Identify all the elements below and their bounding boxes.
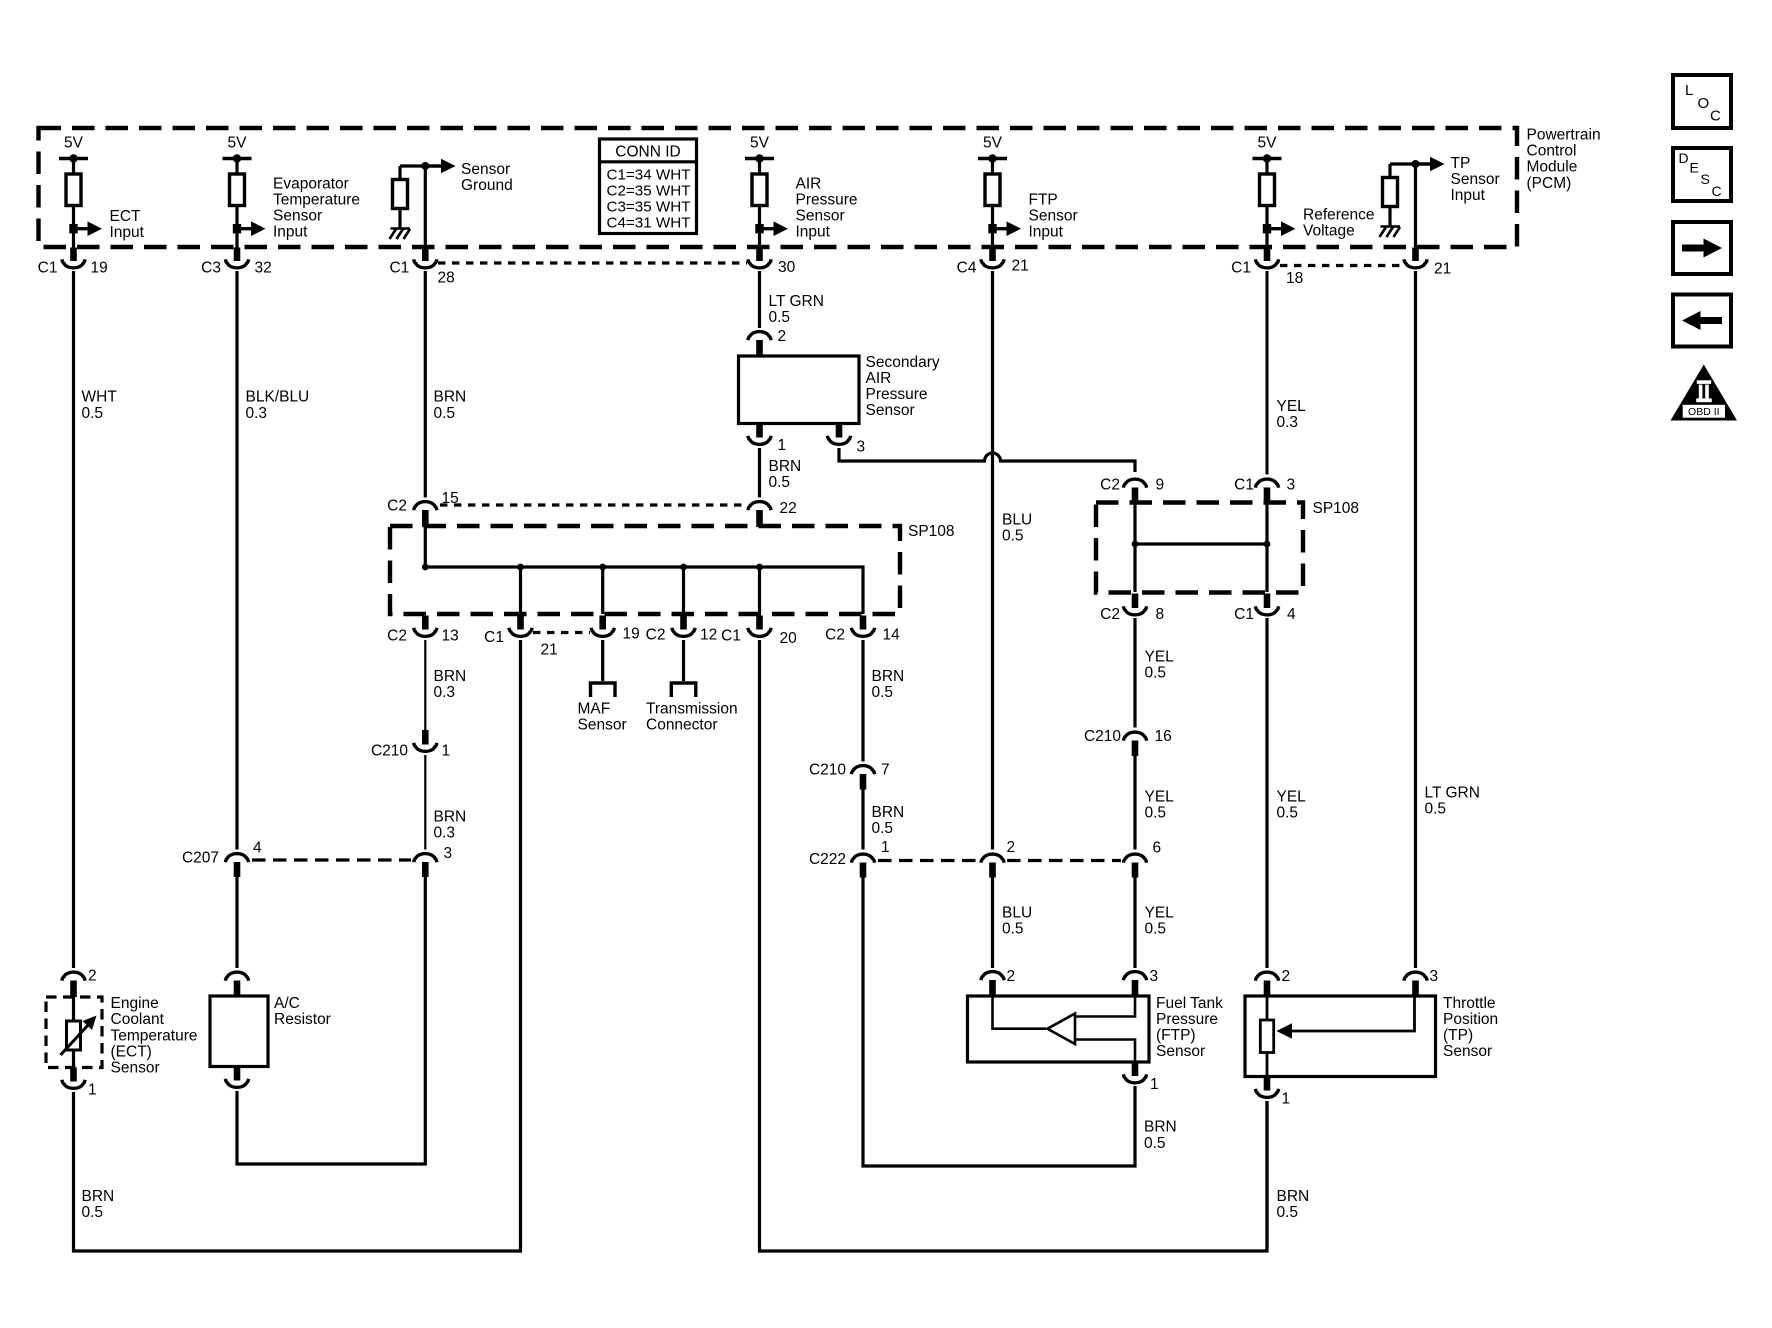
svg-text:0.3: 0.3: [434, 684, 456, 701]
FTP pin1 cup: [1123, 1074, 1146, 1083]
svg-text:ECT: ECT: [110, 208, 142, 225]
wire LT GRN top: [758, 271, 761, 328]
svg-text:0.5: 0.5: [82, 405, 104, 422]
svg-text:C1: C1: [389, 260, 409, 277]
dotted link C1-28 to 30: [438, 261, 747, 264]
wire YEL 0.3 C1-18 down: [1266, 271, 1269, 475]
svg-text:(ECT): (ECT): [111, 1043, 152, 1060]
PCM connector cup pin 18: [1255, 259, 1278, 268]
svg-text:0.5: 0.5: [872, 684, 894, 701]
label BLK/BLU 0.3: [246, 389, 310, 422]
svg-text:19: 19: [91, 260, 108, 277]
svg-text:Reference: Reference: [1303, 206, 1375, 223]
C222-6 stub: [1132, 863, 1139, 878]
CONN ID table box: [600, 139, 697, 234]
ECT pin2 cap: [62, 972, 85, 981]
input label AIR: [796, 175, 858, 240]
TP input wire inside PCM: [1414, 164, 1417, 248]
wire YEL below C222-6: [1133, 878, 1136, 969]
wire LT GRN right: [1414, 271, 1417, 968]
PCM connector cup pin 32: [225, 259, 248, 268]
C207 pin4 cap: [225, 854, 248, 863]
label BRN 0.5 below AIR pin1: [769, 458, 802, 491]
svg-text:Sensor: Sensor: [578, 717, 627, 734]
svg-text:13: 13: [442, 628, 459, 645]
svg-text:0.5: 0.5: [1145, 804, 1167, 821]
svg-text:3: 3: [1430, 968, 1439, 985]
svg-text:0.5: 0.5: [1002, 920, 1024, 937]
dashed link C222 2-6: [1007, 859, 1121, 862]
C210-16 stub: [1132, 741, 1139, 757]
svg-text:YEL: YEL: [1145, 788, 1175, 805]
svg-text:YEL: YEL: [1277, 398, 1307, 415]
C222-1 stub: [860, 863, 867, 878]
svg-text:3: 3: [857, 439, 866, 456]
label BLU 0.5 upper: [1002, 511, 1032, 544]
SP108 row cup x=863.0: [851, 628, 874, 637]
label YEL 0.5 b: [1145, 788, 1175, 821]
svg-text:Throttle: Throttle: [1443, 995, 1496, 1012]
SP108 row cup x=520.5: [509, 628, 532, 637]
svg-text:Pressure: Pressure: [1156, 1011, 1218, 1028]
SP108 left bus wire: [425, 527, 863, 614]
AIR pin2 cap: [748, 332, 771, 341]
PCM connector cup pin 28: [414, 259, 437, 268]
svg-text:BLK/BLU: BLK/BLU: [246, 389, 310, 406]
svg-text:3: 3: [1150, 968, 1159, 985]
TP input junction dot: [1412, 160, 1420, 168]
Secondary AIR sensor box: [739, 356, 860, 424]
wire C1-20 long down: [760, 640, 1268, 1251]
ECT label: [111, 995, 198, 1076]
svg-text:C207: C207: [182, 850, 219, 867]
svg-text:YEL: YEL: [1145, 904, 1175, 921]
C2-15 stub: [422, 510, 429, 527]
SP108 row cup x=602.7: [591, 628, 614, 637]
sensor ground resistor to chassis: [398, 208, 401, 228]
label BRN 0.5 x14 b: [872, 804, 905, 837]
svg-text:C2: C2: [1100, 477, 1120, 494]
TP pin3 stub: [1412, 981, 1419, 997]
wire BRN 0.5 ECT to bottom rail: [74, 640, 521, 1251]
right bus dot 2: [1264, 541, 1271, 548]
svg-text:0.3: 0.3: [1277, 414, 1299, 431]
svg-text:C2: C2: [825, 627, 845, 644]
svg-text:21: 21: [541, 642, 558, 659]
wire BRN below C2-14: [861, 640, 864, 762]
PCM label Powertrain Control Module: [1527, 127, 1601, 192]
svg-text:BRN: BRN: [1277, 1188, 1310, 1205]
SP108 row cup x=425.3: [414, 628, 437, 637]
cap 22: [748, 502, 771, 511]
PCM connector stub pin 30 at x=759.5: [756, 248, 763, 262]
svg-text:C4: C4: [957, 260, 977, 277]
PCM connector stub pin 32 at x=237.0: [234, 248, 241, 262]
svg-text:5V: 5V: [983, 135, 1003, 152]
back arrow icon box: [1673, 295, 1731, 347]
5V rail bar AIR: [745, 154, 774, 175]
FTP pin3 cap: [1123, 972, 1146, 981]
svg-text:BRN: BRN: [1144, 1119, 1177, 1136]
DESC icon box: [1673, 148, 1731, 201]
TP pin3 cap: [1404, 972, 1427, 981]
bus drop C1-21: [519, 567, 522, 614]
svg-text:OBD II: OBD II: [1688, 406, 1720, 418]
svg-text:O: O: [1698, 95, 1710, 112]
PCM connector stub pin 18 at x=1267.0: [1264, 248, 1271, 262]
input arrow EVAP: [233, 221, 266, 236]
svg-text:20: 20: [780, 630, 798, 647]
label YEL 0.5 col7: [1277, 788, 1307, 821]
svg-text:2: 2: [1282, 968, 1291, 985]
svg-text:1: 1: [1150, 1076, 1159, 1093]
bus junction dot 4: [680, 564, 687, 571]
svg-text:Coolant: Coolant: [111, 1011, 165, 1028]
right bus drop 1: [1133, 503, 1136, 592]
wire YEL below C2-8: [1133, 618, 1136, 728]
svg-text:C2=35 WHT: C2=35 WHT: [607, 183, 691, 200]
SP108 row stub x=425.3: [422, 616, 429, 630]
wire BRN 0.3 below C210-1: [424, 755, 426, 850]
input arrow FTP: [988, 221, 1021, 236]
wire BLK/BLU 0.3 vertical: [235, 271, 238, 850]
svg-text:8: 8: [1156, 606, 1165, 623]
AC top stub: [234, 981, 241, 997]
ECT pin2 stub: [70, 981, 77, 998]
LOC icon box: [1673, 75, 1731, 128]
TP ground resistor leg: [1388, 164, 1391, 178]
C207 pin3 cap: [414, 854, 437, 863]
SP108 left dashed box: [390, 526, 900, 614]
forward arrow: [1682, 245, 1705, 252]
AIR pin3 stub: [836, 424, 843, 438]
pull-up resistor FTP: [985, 174, 1000, 206]
TP pin2 stub: [1264, 981, 1271, 997]
svg-text:LT GRN: LT GRN: [1425, 784, 1480, 801]
svg-text:Evaporator: Evaporator: [273, 175, 349, 192]
svg-text:BRN: BRN: [769, 458, 802, 475]
bus junction dot 1: [422, 564, 429, 571]
TP pot element: [1260, 996, 1414, 1077]
label BRN 0.5 col3: [434, 389, 467, 422]
svg-text:(FTP): (FTP): [1156, 1027, 1196, 1044]
svg-text:0.5: 0.5: [1425, 800, 1447, 817]
svg-text:Ground: Ground: [461, 177, 513, 194]
svg-text:C: C: [1712, 183, 1722, 199]
svg-text:1: 1: [88, 1082, 97, 1099]
C222-2 stub: [989, 863, 996, 878]
svg-text:BRN: BRN: [82, 1188, 115, 1205]
wire resistor to arrow junction EVAP: [235, 205, 238, 248]
sensor ground resistor leg: [398, 166, 401, 180]
svg-text:Sensor: Sensor: [1029, 207, 1078, 224]
C1-4 cup: [1255, 606, 1278, 615]
wire AIR pin1 down: [758, 448, 761, 498]
svg-text:16: 16: [1155, 728, 1172, 745]
ECT thermistor wire top: [72, 996, 75, 1021]
svg-text:AIR: AIR: [866, 370, 892, 387]
svg-text:Position: Position: [1443, 1011, 1498, 1028]
svg-text:C4=31 WHT: C4=31 WHT: [607, 214, 691, 231]
label WHT 0.5: [82, 389, 118, 422]
sensor ground wire inside PCM: [424, 166, 427, 248]
dashed link C222 1-2: [878, 859, 978, 862]
svg-text:Resistor: Resistor: [274, 1011, 331, 1028]
svg-text:0.5: 0.5: [1145, 920, 1167, 937]
C2-8 stub: [1132, 594, 1139, 609]
dashed link C1-21 to 19: [533, 631, 590, 634]
svg-text:A/C: A/C: [274, 995, 300, 1012]
MAF drop wire: [601, 640, 604, 681]
back arrow: [1699, 317, 1722, 324]
sensor ground junction dot: [421, 162, 429, 170]
wire C207-4 to AC resistor: [235, 877, 238, 968]
svg-text:S: S: [1701, 171, 1710, 187]
label BRN 0.3 upper: [434, 668, 467, 701]
AC top cap: [225, 972, 248, 981]
svg-text:Input: Input: [1029, 224, 1064, 241]
svg-text:2: 2: [88, 968, 97, 985]
wire resistor to arrow junction ECT: [72, 205, 75, 248]
wire AC loop to C207-3: [237, 877, 425, 1164]
svg-text:BLU: BLU: [1002, 904, 1032, 921]
svg-text:Input: Input: [796, 224, 831, 241]
label YEL 0.5 a: [1145, 648, 1175, 681]
wire TP pin1 down: [1265, 1101, 1268, 1251]
svg-text:Input: Input: [273, 224, 308, 241]
label BRN 0.5 x14 a: [872, 668, 905, 701]
wire YEL below C1-4: [1265, 618, 1268, 968]
svg-text:Powertrain: Powertrain: [1527, 127, 1601, 144]
svg-text:C222: C222: [809, 851, 846, 868]
svg-text:Input: Input: [110, 224, 145, 241]
Transmission drop wire: [682, 640, 685, 681]
svg-text:C3: C3: [201, 260, 221, 277]
C2-15 cap: [414, 502, 437, 511]
input label REFV: [1303, 206, 1375, 239]
PCM module dashed enclosure box: [39, 128, 1518, 247]
svg-text:D: D: [1679, 150, 1689, 166]
svg-text:CONN ID: CONN ID: [615, 144, 680, 161]
5V rail bar FTP: [978, 154, 1007, 175]
svg-text:C2: C2: [387, 628, 407, 645]
svg-text:C2: C2: [646, 627, 666, 644]
PCM connector cup pin 21: [981, 259, 1004, 268]
svg-text:0.5: 0.5: [1277, 804, 1299, 821]
TP pin2 cap: [1255, 972, 1278, 981]
svg-text:TP: TP: [1451, 155, 1471, 172]
svg-text:9: 9: [1156, 477, 1165, 494]
svg-text:C1: C1: [1234, 477, 1254, 494]
PCM connector cup pin 19: [62, 259, 85, 268]
dotted link C1-18 to 21: [1280, 264, 1403, 267]
SP108 row stub x=863.0: [860, 616, 867, 630]
C210-16 cap: [1123, 732, 1146, 741]
bus drop 19: [601, 567, 604, 614]
ECT pin1 stub: [70, 1068, 77, 1082]
svg-text:SP108: SP108: [908, 523, 955, 540]
PCM connector stub pin 28 at x=425.3: [422, 248, 429, 262]
svg-text:5V: 5V: [228, 135, 248, 152]
AIR pin2 stub: [756, 340, 763, 357]
ECT pin1 cup: [62, 1080, 85, 1089]
sensor ground internal wire elbow: [400, 164, 425, 167]
C2-8 cup: [1123, 606, 1146, 615]
chassis ground symbol right: [1380, 227, 1401, 238]
svg-text:4: 4: [1287, 606, 1296, 623]
svg-text:0.5: 0.5: [82, 1204, 104, 1221]
svg-text:Fuel Tank: Fuel Tank: [1156, 995, 1223, 1012]
SP108 row cup x=683.5: [672, 628, 695, 637]
svg-text:BRN: BRN: [872, 668, 905, 685]
svg-text:C210: C210: [1084, 728, 1121, 745]
svg-text:3: 3: [444, 845, 453, 862]
OBD II triangle icon: [1671, 365, 1738, 421]
wire BRN 0.3 below C2-13: [424, 640, 426, 730]
input label FTP: [1029, 191, 1078, 240]
TP input label: [1451, 155, 1500, 204]
svg-text:LT GRN: LT GRN: [769, 293, 824, 310]
label LT GRN 0.5: [769, 293, 824, 326]
chassis ground symbol left: [390, 229, 411, 240]
svg-text:C1=34 WHT: C1=34 WHT: [607, 167, 691, 184]
pull-up resistor REFV: [1260, 174, 1275, 206]
sensor ground resistor: [393, 180, 408, 209]
svg-text:Control: Control: [1527, 143, 1577, 160]
Transmission connector bracket: [671, 683, 696, 697]
svg-text:Sensor: Sensor: [461, 161, 510, 178]
svg-text:SP108: SP108: [1313, 500, 1360, 517]
svg-text:0.3: 0.3: [246, 405, 268, 422]
svg-text:Temperature: Temperature: [111, 1027, 198, 1044]
svg-text:FTP: FTP: [1029, 191, 1058, 208]
svg-text:3: 3: [1287, 477, 1296, 494]
svg-text:0.3: 0.3: [434, 824, 456, 841]
svg-text:Pressure: Pressure: [796, 191, 858, 208]
wire resistor to arrow junction AIR: [758, 205, 761, 248]
pull-up resistor EVAP: [230, 174, 245, 206]
svg-text:6: 6: [1153, 840, 1162, 857]
C1-3 stub: [1264, 488, 1271, 504]
SP108 row stub x=520.5: [517, 616, 524, 630]
ECT thermistor arrow: [61, 1024, 90, 1055]
svg-text:MAF: MAF: [578, 701, 611, 718]
bus junction dot 2: [517, 564, 524, 571]
C222-6 cap: [1123, 854, 1146, 863]
forward arrow icon box: [1673, 222, 1731, 274]
Transmission label: [646, 701, 738, 734]
svg-text:7: 7: [881, 762, 890, 779]
svg-text:Sensor: Sensor: [866, 402, 915, 419]
5V rail bar ECT: [59, 154, 88, 175]
TP sensor box: [1245, 996, 1436, 1077]
svg-text:Voltage: Voltage: [1303, 222, 1355, 239]
svg-text:BRN: BRN: [434, 808, 467, 825]
svg-text:E: E: [1690, 160, 1699, 176]
FTP label: [1156, 995, 1223, 1060]
TP input arrow: [1416, 162, 1433, 165]
svg-text:C210: C210: [371, 743, 408, 760]
input arrow ECT: [69, 221, 102, 236]
svg-text:BRN: BRN: [434, 389, 467, 406]
C2-9 cap: [1123, 479, 1146, 488]
svg-text:Sensor: Sensor: [1156, 1043, 1205, 1060]
ECT sensor dashed box: [46, 997, 102, 1068]
svg-text:5V: 5V: [1258, 135, 1278, 152]
svg-text:0.5: 0.5: [1145, 665, 1167, 682]
PCM connector stub pin 21 at x=992.5: [989, 248, 996, 262]
SP108 right bus: [1135, 542, 1267, 545]
C1-3 cap: [1255, 479, 1278, 488]
C207 pin3 stub: [422, 862, 429, 877]
PCM connector stub pin 21 at x=1415.5: [1412, 248, 1419, 262]
sensor ground arrow: [425, 164, 443, 167]
svg-text:Transmission: Transmission: [646, 701, 738, 718]
wire YEL below C210-16: [1133, 756, 1136, 850]
wire BLU C4-21 down: [991, 271, 994, 850]
svg-text:2: 2: [1007, 839, 1016, 856]
svg-text:C1: C1: [484, 629, 504, 646]
right bus drop 2: [1265, 503, 1268, 592]
svg-text:21: 21: [1012, 258, 1029, 275]
PCM connector cup pin 21: [1404, 259, 1427, 268]
svg-text:1: 1: [442, 743, 451, 760]
FTP pin1 stub: [1132, 1062, 1139, 1076]
ECT thermistor rect: [67, 1021, 81, 1050]
TP resistor to chassis: [1388, 206, 1391, 226]
wire AIR pin3 elbow: [839, 448, 1135, 472]
5V rail bar REFV: [1253, 154, 1282, 175]
5V rail bar EVAP: [223, 154, 252, 175]
FTP inner transducer: [993, 996, 1136, 1062]
bus junction dot 5: [756, 564, 763, 571]
svg-text:14: 14: [883, 627, 901, 644]
input arrow REFV: [1263, 221, 1296, 236]
SP108 row cup x=759.5: [748, 628, 771, 637]
label BLU 0.5 lower: [1002, 904, 1032, 937]
SP108 right dashed box: [1096, 503, 1303, 593]
svg-text:30: 30: [778, 259, 796, 276]
sensor ground label: [461, 161, 513, 194]
C210-7 stub: [860, 774, 867, 790]
svg-text:4: 4: [253, 840, 262, 857]
svg-text:C: C: [1710, 108, 1721, 125]
TP label: [1443, 995, 1498, 1060]
svg-text:C1: C1: [1234, 606, 1254, 623]
TP input internal wire elbow: [1390, 162, 1416, 165]
svg-text:21: 21: [1434, 261, 1451, 278]
svg-text:0.5: 0.5: [769, 474, 791, 491]
AC resistor box: [210, 996, 268, 1067]
AIR pin1 cup: [748, 436, 771, 445]
svg-text:1: 1: [778, 437, 787, 454]
wire BRN below C210-7: [861, 790, 864, 850]
label BRN 0.3 lower: [434, 808, 467, 841]
svg-text:0.5: 0.5: [1277, 1204, 1299, 1221]
SP108 row stub x=602.7: [599, 616, 606, 630]
svg-text:19: 19: [623, 626, 640, 643]
stub 22: [756, 510, 763, 527]
wire resistor to arrow junction FTP: [991, 205, 994, 248]
svg-text:C1: C1: [1231, 260, 1251, 277]
wire BRN 0.5 sensor ground: [424, 271, 427, 498]
wire WHT 0.5 ECT vertical: [72, 271, 75, 968]
svg-text:5V: 5V: [750, 135, 770, 152]
C1-4 stub: [1264, 594, 1271, 609]
SP108 row stub x=683.5: [680, 616, 687, 630]
C2-9 stub: [1132, 488, 1139, 504]
FTP pin2 stub: [989, 980, 996, 997]
